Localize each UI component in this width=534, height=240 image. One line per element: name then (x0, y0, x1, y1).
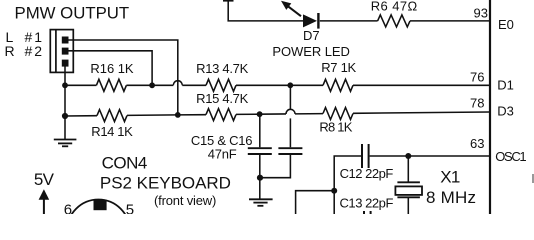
wire line D1 left segment (65, 84, 96, 86)
node C12 C13 branch (331, 188, 337, 194)
wire net E0 top stub tick (223, 0, 234, 2)
connector pin 3 square (62, 60, 69, 67)
LED D7 anode-cathode wire (320, 20, 378, 22)
resistor R8 (323, 108, 353, 120)
connector CON PMW output (50, 30, 73, 73)
svg-text:C12 22pF: C12 22pF (340, 166, 394, 181)
capacitor C12 (362, 144, 369, 168)
svg-text:R6 47Ω: R6 47Ω (371, 0, 418, 14)
wire net E0 vertical (228, 0, 303, 21)
svg-text:PMW OUTPUT: PMW OUTPUT (15, 4, 130, 23)
LED D7 (281, 1, 320, 29)
wire branch left of C13 node (296, 191, 335, 214)
svg-text:63: 63 (470, 136, 484, 151)
resistor R13 (206, 79, 236, 91)
svg-text:PS2 KEYBOARD: PS2 KEYBOARD (100, 174, 231, 193)
node on D1 line left (62, 82, 68, 88)
node pin1 joins D3 line (175, 112, 181, 118)
resistor R16 (96, 79, 126, 91)
wire connector pin1 to vertical (69, 40, 178, 115)
svg-text:6: 6 (64, 202, 72, 215)
wire R6 to pin 93 (410, 20, 489, 22)
partial glyph at right edge (532, 174, 534, 183)
svg-text:CON4: CON4 (102, 154, 148, 173)
PS2 connector key notch (94, 200, 107, 211)
svg-text:C13 22pF: C13 22pF (340, 196, 394, 211)
wire connector pin2 to vertical (69, 51, 153, 86)
wire crystal top stem (407, 156, 409, 182)
node C15 on D3 line (257, 111, 263, 117)
node ground of C15 C16 (257, 175, 263, 181)
wire crystal bottom stem (407, 197, 409, 214)
wire C15 bottom to ground node (259, 155, 261, 199)
svg-text:R7 1K: R7 1K (321, 60, 356, 75)
wire R13 to node (236, 84, 290, 86)
capacitor C16 (278, 148, 302, 154)
resistor R6 (378, 15, 410, 27)
svg-text:R8 1K: R8 1K (319, 120, 352, 135)
svg-text:D7: D7 (303, 28, 320, 43)
svg-text:X1: X1 (440, 168, 460, 187)
svg-text:8 MHz: 8 MHz (426, 188, 476, 207)
resistor R14 (97, 110, 127, 122)
wire node to hop (260, 113, 286, 115)
wire node D1 down across D3 to C16 (289, 85, 291, 109)
wire R15 to node (236, 113, 260, 115)
resistor R15 (206, 109, 236, 121)
svg-text:#2: #2 (25, 43, 43, 59)
wire node to R7 (290, 84, 323, 86)
hop over vertical on D3 line (286, 109, 295, 114)
svg-text:OSC1: OSC1 (495, 149, 526, 164)
5V arrow (39, 189, 50, 214)
wire R14 to node (127, 114, 178, 117)
capacitor C13 partial at bottom edge (364, 211, 371, 214)
wire connector pin3 down to ground (64, 67, 66, 140)
svg-text:5: 5 (126, 202, 134, 215)
hop over vertical on D1 line (173, 81, 182, 86)
node OSC1 crystal (405, 153, 411, 159)
svg-text:POWER LED: POWER LED (272, 44, 350, 59)
svg-text:76: 76 (470, 69, 484, 84)
svg-text:47nF: 47nF (208, 147, 237, 162)
svg-text:R13 4.7K: R13 4.7K (196, 61, 249, 76)
wire line D3 left segment (65, 115, 97, 117)
svg-text:R: R (5, 43, 15, 59)
connector pin 2 square (62, 48, 69, 55)
crystal X1 (395, 182, 422, 197)
wire R8 to pin 78 (353, 112, 489, 113)
wire C16 bottom to ground node (260, 155, 290, 178)
node pin2 joins D1 line (149, 82, 155, 88)
PS2 connector circle CON4 (67, 200, 130, 240)
wire node to R15 (178, 114, 206, 116)
ground under connector (54, 140, 77, 147)
capacitor C15 (248, 148, 272, 154)
wire C12 right to IC (370, 155, 489, 157)
svg-text:78: 78 (470, 96, 484, 111)
wire hop to R13 (182, 84, 206, 86)
wire below hop to C16 top (289, 118, 291, 147)
resistor R7 (323, 79, 353, 91)
IC U1 left edge (489, 0, 491, 214)
node on D3 line left (62, 113, 68, 119)
svg-text:D1: D1 (497, 78, 514, 93)
ground under C15 C16 (249, 199, 273, 206)
wire C15 drop from D3 line (259, 114, 261, 147)
svg-text:R16 1K: R16 1K (90, 61, 134, 76)
svg-text:E0: E0 (498, 17, 514, 32)
svg-text:(front view): (front view) (154, 193, 216, 208)
svg-text:5V: 5V (34, 170, 55, 189)
svg-text:D3: D3 (497, 104, 514, 119)
wire R16 to node (126, 84, 173, 86)
wire OSC1 left corner down (334, 156, 361, 214)
svg-text:R15 4.7K: R15 4.7K (196, 91, 249, 106)
svg-text:R14 1K: R14 1K (91, 124, 133, 139)
node C16 on D1 line (287, 82, 293, 88)
connector pin 1 square (62, 37, 69, 44)
wire hop to R8 (295, 113, 323, 115)
wire R7 to pin 76 (353, 84, 489, 86)
svg-text:93: 93 (474, 5, 488, 20)
